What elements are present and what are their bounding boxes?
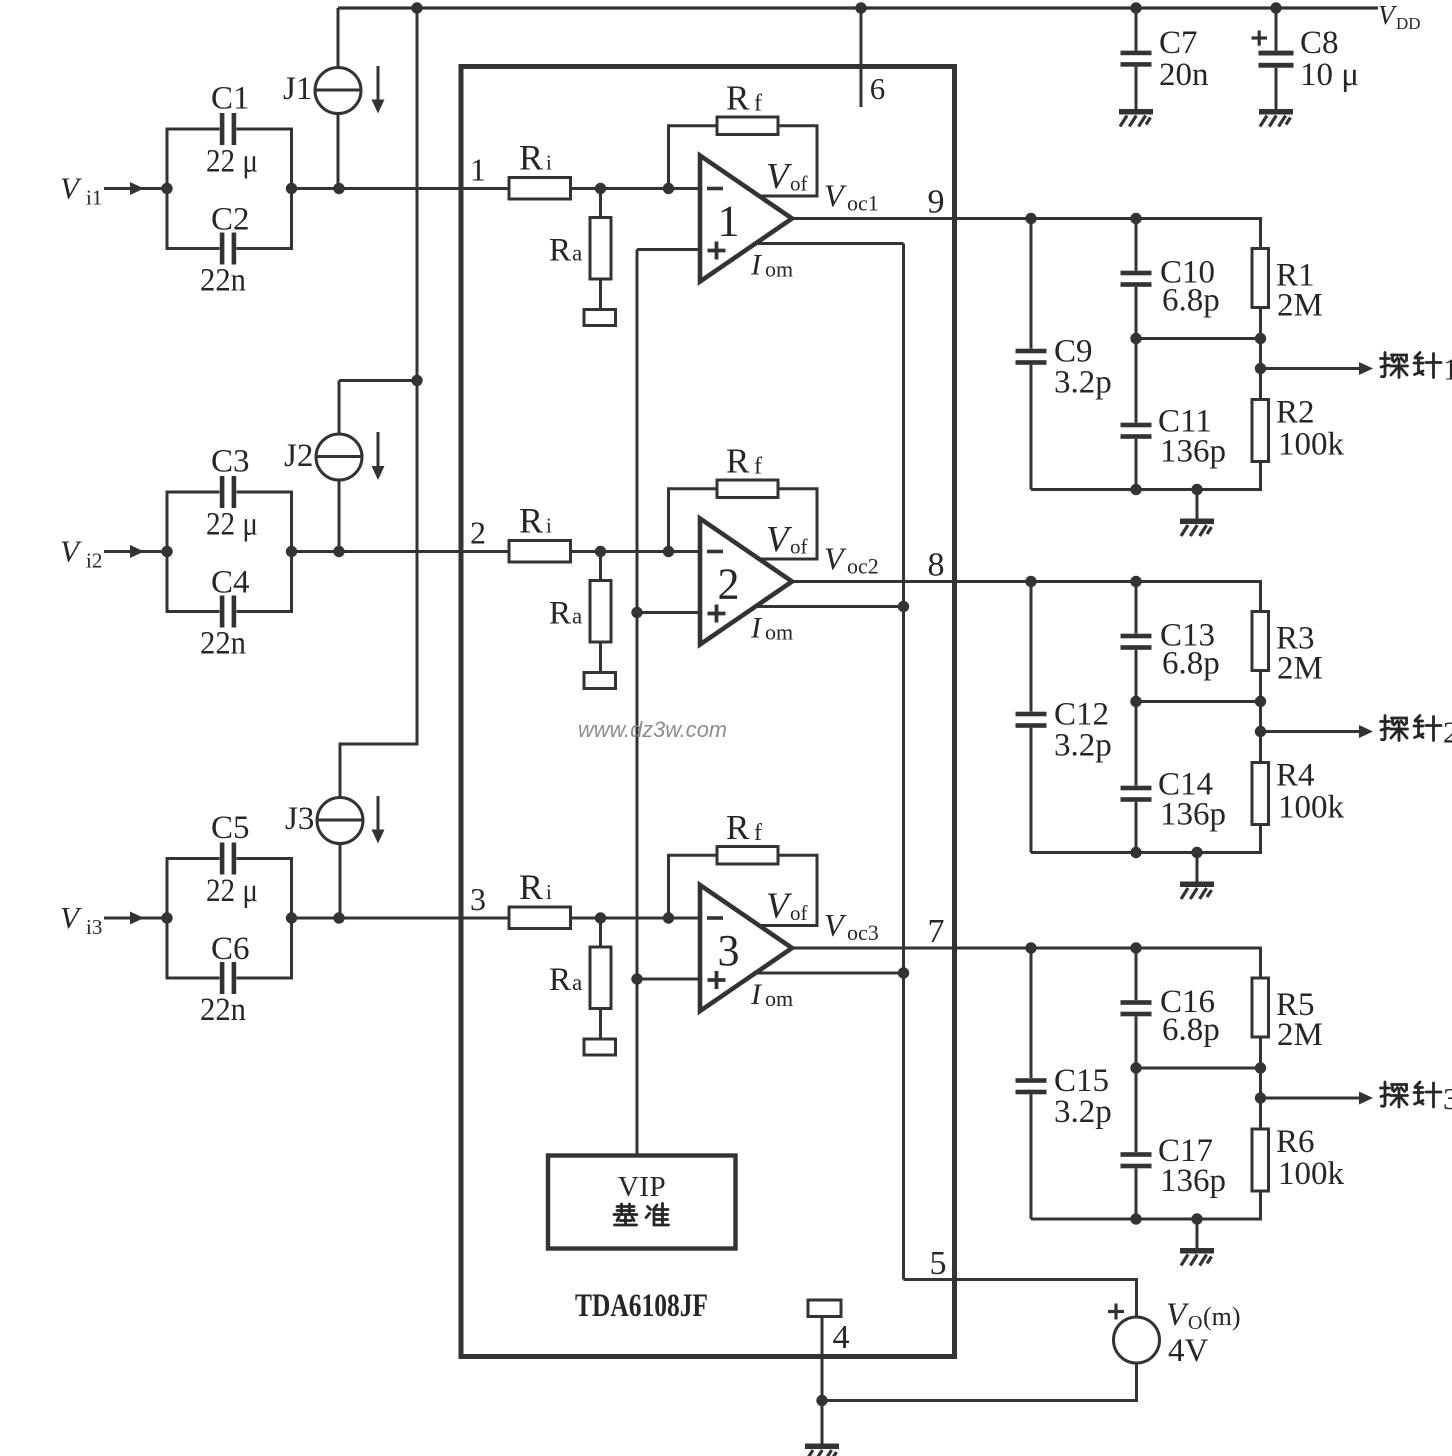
resistor R1 2M	[1252, 249, 1269, 308]
arrow beside J1	[372, 66, 385, 114]
svg-text:6: 6	[870, 71, 886, 106]
junction C-C12 top	[1025, 576, 1036, 587]
wire R3 bottom to R4 top	[1259, 671, 1262, 763]
junction ground rail tap 3	[1191, 1213, 1202, 1224]
junction ground rail tap 2	[1191, 847, 1202, 858]
svg-text:4: 4	[833, 1319, 850, 1356]
svg-text:f: f	[754, 820, 762, 846]
label Rf row3	[726, 808, 762, 847]
wire vertical from VDD rail x417 down	[340, 8, 417, 798]
junction probe tap 2	[1255, 726, 1266, 737]
label Voc1	[824, 178, 879, 216]
wire J2 branch down	[338, 381, 341, 435]
svg-text:C6: C6	[211, 931, 250, 967]
wire R1 bottom to R2 top	[1259, 308, 1262, 400]
resistor Rf row2	[717, 480, 778, 498]
capacitor C2 22n (bottom of input box)	[167, 189, 292, 265]
svg-text:i: i	[546, 880, 552, 904]
svg-text:22n: 22n	[200, 992, 246, 1028]
svg-text:3.2p: 3.2p	[1054, 1094, 1112, 1130]
junction ground rail C11	[1130, 484, 1141, 495]
junction C-C16 top	[1130, 942, 1141, 953]
op-amp 1 triangle	[700, 156, 792, 282]
wire Ri to minus node row3	[571, 917, 701, 920]
op-amp 3 plus sign	[708, 971, 726, 989]
net label probe2 (tanzhen2)	[1381, 715, 1452, 750]
wire Iom op2	[753, 605, 904, 608]
wire Vo source bottom to ground node	[822, 1363, 1137, 1401]
svg-text:2: 2	[718, 560, 740, 609]
junction input box left row1	[161, 183, 172, 194]
svg-text:R: R	[549, 962, 571, 998]
svg-text:C4: C4	[211, 565, 250, 601]
svg-text:R2: R2	[1276, 395, 1315, 431]
junction input box left row2	[161, 546, 172, 557]
junction mid left	[1130, 1062, 1141, 1073]
svg-text:1: 1	[1443, 352, 1452, 387]
wire R2 to ground rail	[1031, 462, 1261, 490]
plus sign of C8	[1252, 31, 1268, 46]
svg-text:i1: i1	[86, 186, 102, 210]
wire ground stub network 3	[1196, 1219, 1199, 1248]
svg-text:C1: C1	[211, 81, 250, 117]
svg-text:2M: 2M	[1277, 288, 1323, 324]
op-amp 2 minus sign	[707, 550, 723, 554]
svg-text:22 μ: 22 μ	[206, 873, 258, 909]
ground under C7	[1119, 109, 1153, 127]
svg-text:a: a	[572, 241, 582, 266]
junction ground rail tap 1	[1191, 484, 1202, 495]
svg-text:C5: C5	[211, 810, 250, 846]
wire J2 branch horizontal	[339, 379, 417, 382]
svg-text:3: 3	[1443, 1081, 1452, 1116]
svg-text:V: V	[60, 534, 82, 569]
wire R4 to ground rail	[1031, 825, 1261, 853]
svg-text:C8: C8	[1300, 25, 1339, 61]
svg-text:oc1: oc1	[847, 191, 879, 216]
wire op1 output to network	[792, 219, 1261, 249]
capacitor C15 3.2p	[1016, 948, 1047, 1219]
junction minus node row2	[663, 546, 674, 557]
label Ri row1	[519, 138, 552, 178]
arrowhead on Vi2 input	[130, 545, 144, 558]
capacitor C17 136p	[1121, 1068, 1152, 1219]
wire pin 6 stub	[860, 8, 863, 107]
label Iom op3	[750, 978, 793, 1011]
svg-text:a: a	[572, 604, 582, 629]
label Ra row3	[549, 962, 582, 998]
svg-text:R: R	[549, 233, 571, 269]
wire Ri to minus node row1	[571, 187, 701, 190]
wire pin 5 to Vo source	[904, 1280, 1137, 1318]
node VDD supply rail (top wire)	[338, 6, 1378, 9]
junction probe tap 3	[1255, 1092, 1266, 1103]
capacitor C12 3.2p	[1016, 582, 1047, 853]
junction Iom op2	[898, 601, 909, 612]
svg-text:136p: 136p	[1160, 434, 1226, 470]
svg-text:f: f	[754, 454, 762, 480]
svg-text:2: 2	[1443, 715, 1452, 750]
resistor R6 100k	[1252, 1129, 1269, 1191]
resistor R4 100k	[1252, 763, 1269, 825]
svg-text:3.2p: 3.2p	[1054, 365, 1112, 401]
svg-text:6.8p: 6.8p	[1162, 1012, 1220, 1048]
svg-text:3.2p: 3.2p	[1054, 728, 1112, 764]
label Voc2	[824, 541, 879, 579]
arrow beside J2	[372, 432, 385, 480]
capacitor C13 6.8p	[1121, 582, 1152, 702]
op-amp 2 plus sign	[708, 605, 726, 623]
label Vof row3	[766, 886, 808, 927]
svg-text:oc2: oc2	[847, 554, 879, 579]
wire probe 3	[1261, 1097, 1360, 1100]
wire plus input op1	[637, 248, 700, 251]
svg-text:f: f	[754, 91, 762, 117]
wire mid junction C16-R5	[1136, 1067, 1261, 1070]
label Vof row1	[766, 157, 808, 198]
svg-text:om: om	[765, 986, 793, 1011]
junction ground rail C17	[1130, 1213, 1141, 1224]
svg-text:C2: C2	[211, 202, 250, 238]
resistor Rf row3	[717, 847, 778, 865]
label Rf row1	[726, 79, 762, 118]
svg-text:100k: 100k	[1278, 427, 1345, 463]
junction plus input op2	[631, 607, 642, 618]
label Ra row1	[549, 233, 582, 269]
wire feedback loop row1	[669, 126, 818, 196]
junction input box right row2	[286, 546, 297, 557]
wire mid junction C10-R1	[1136, 337, 1261, 340]
wire Ri to minus node row2	[571, 550, 701, 553]
svg-text:R4: R4	[1276, 758, 1315, 794]
junction on VDD rail C7	[1130, 2, 1141, 13]
junction C-C10 top	[1130, 213, 1141, 224]
svg-text:6.8p: 6.8p	[1162, 283, 1220, 319]
svg-text:om: om	[765, 257, 793, 282]
label Ri row2	[519, 501, 552, 541]
wire row2 box to IC pin 2	[292, 550, 510, 553]
junction Ra top row2	[595, 546, 606, 557]
voltage source Vo(m) 4V	[1114, 1317, 1160, 1363]
wire Iom op1	[753, 242, 904, 245]
resistor Ra row2	[590, 581, 611, 643]
junction mid left	[1130, 333, 1141, 344]
junction mid right	[1255, 1062, 1266, 1073]
label Vof row2	[766, 520, 808, 561]
net label probe3 (tanzhen3)	[1381, 1081, 1452, 1116]
svg-text:V: V	[60, 171, 82, 206]
svg-text:i3: i3	[86, 915, 102, 939]
junction probe tap 1	[1255, 363, 1266, 374]
label Vo(m)	[1166, 1297, 1241, 1334]
svg-text:2M: 2M	[1277, 1017, 1323, 1053]
wire feedback loop row2	[669, 489, 818, 559]
svg-text:1: 1	[718, 197, 740, 246]
net label probe1 (tanzhen1)	[1381, 352, 1452, 387]
svg-text:a: a	[572, 970, 582, 995]
arrowhead on Vi1 input	[130, 182, 144, 195]
svg-text:VIP: VIP	[618, 1171, 666, 1203]
wire plus input op3	[637, 978, 700, 981]
svg-text:3: 3	[470, 881, 486, 917]
resistor Ri row3	[509, 907, 571, 929]
arrowhead probe 3	[1359, 1092, 1373, 1105]
net label VDD	[1378, 0, 1421, 33]
wire Vi2 input lead	[104, 550, 167, 553]
svg-text:DD: DD	[1396, 14, 1421, 33]
internal pad below Ra row2	[584, 673, 616, 689]
capacitor C8 10u electrolytic	[1259, 8, 1294, 109]
junction Iom op3	[898, 967, 909, 978]
capacitor C14 136p	[1121, 702, 1152, 853]
resistor R2 100k	[1252, 400, 1269, 462]
svg-text:8: 8	[928, 547, 945, 584]
junction Ra top row3	[595, 912, 606, 923]
ground network 1	[1180, 519, 1214, 537]
svg-text:22n: 22n	[200, 263, 246, 299]
wire plus input op2	[637, 611, 700, 614]
net label Vi1	[60, 171, 102, 210]
current source J3	[317, 798, 363, 844]
svg-text:i: i	[546, 514, 552, 538]
svg-text:22 μ: 22 μ	[206, 144, 258, 180]
capacitor C7 20n	[1121, 8, 1152, 109]
internal pad below Ra row1	[584, 310, 616, 326]
svg-text:2: 2	[470, 515, 486, 551]
capacitor C9 3.2p	[1016, 219, 1047, 490]
svg-text:R6: R6	[1276, 1124, 1315, 1160]
label jizhun (VIP reference) chinese	[614, 1204, 669, 1226]
wire Ra stub row2	[599, 552, 602, 581]
arrowhead probe 1	[1359, 362, 1373, 375]
resistor Ri row1	[509, 178, 571, 200]
svg-text:of: of	[790, 172, 808, 196]
resistor R5 2M	[1252, 978, 1269, 1037]
junction pin4 ground node	[816, 1395, 827, 1406]
ground network 2	[1180, 882, 1214, 900]
svg-text:2M: 2M	[1277, 651, 1323, 687]
svg-text:R: R	[726, 79, 750, 118]
svg-text:TDA6108JF: TDA6108JF	[575, 1288, 708, 1324]
wire Vi3 input lead	[104, 917, 167, 920]
wire Ra stub row1	[599, 189, 602, 218]
svg-text:136p: 136p	[1160, 797, 1226, 833]
capacitor C3 22μ (top of input box)	[167, 476, 292, 552]
svg-text:J2: J2	[284, 438, 313, 474]
wire probe 2	[1261, 730, 1360, 733]
capacitor C6 22n (bottom of input box)	[167, 918, 292, 994]
svg-text:1: 1	[470, 152, 486, 188]
svg-text:136p: 136p	[1160, 1163, 1226, 1199]
svg-text:3: 3	[718, 926, 740, 975]
capacitor C16 6.8p	[1121, 948, 1152, 1068]
arrowhead probe 2	[1359, 725, 1373, 738]
wire VIP reference vertical	[636, 250, 639, 1157]
wire row1 box to IC pin 1	[292, 187, 510, 190]
wire Ra to pad row3	[599, 1009, 602, 1040]
svg-text:J1: J1	[283, 71, 312, 107]
wire probe 1	[1261, 367, 1360, 370]
svg-text:4V: 4V	[1168, 1333, 1209, 1369]
svg-text:(m): (m)	[1203, 1302, 1241, 1331]
svg-text:5: 5	[930, 1245, 947, 1282]
op-amp 3 minus sign	[707, 916, 723, 920]
resistor Ra row1	[590, 218, 611, 280]
svg-text:R: R	[726, 808, 750, 847]
junction input box right row3	[286, 912, 297, 923]
svg-text:100k: 100k	[1278, 1156, 1345, 1192]
label Iom op1	[750, 249, 793, 282]
svg-text:C7: C7	[1159, 25, 1198, 61]
label Iom op2	[750, 612, 793, 645]
junction J3 bottom on row3	[333, 912, 344, 923]
ground under pin 4	[805, 1444, 839, 1456]
svg-text:22n: 22n	[200, 626, 246, 662]
svg-text:6.8p: 6.8p	[1162, 646, 1220, 682]
junction J2 bottom on row2	[333, 546, 344, 557]
svg-text:of: of	[790, 535, 808, 559]
svg-text:R: R	[519, 867, 543, 907]
wire Iom bus vertical	[902, 244, 905, 1280]
label Rf row2	[726, 442, 762, 481]
junction mid right	[1255, 696, 1266, 707]
wire VDD rail down to J1	[337, 8, 340, 68]
wire op3 output to network	[792, 948, 1261, 978]
svg-text:www.dz3w.com: www.dz3w.com	[578, 717, 727, 742]
resistor Ra row3	[590, 947, 611, 1009]
svg-text:i2: i2	[86, 549, 102, 573]
junction mid left	[1130, 696, 1141, 707]
junction input box right row1	[286, 183, 297, 194]
svg-text:R: R	[519, 501, 543, 541]
wire Iom op3	[753, 972, 904, 975]
capacitor C4 22n (bottom of input box)	[167, 552, 292, 628]
op-amp 3 triangle	[700, 885, 792, 1011]
wire J3 to row3 input node	[339, 843, 342, 918]
wire R6 to ground rail	[1031, 1191, 1261, 1219]
arrow beside J3	[372, 796, 385, 844]
junction J1 bottom on row1	[333, 183, 344, 194]
junction x417 J2 branch	[411, 375, 422, 386]
svg-text:22 μ: 22 μ	[206, 507, 258, 543]
junction minus node row1	[663, 183, 674, 194]
capacitor C5 22μ (top of input box)	[167, 843, 292, 919]
resistor Ri row2	[509, 541, 571, 563]
svg-text:oc3: oc3	[847, 920, 879, 945]
svg-text:20n: 20n	[1159, 57, 1209, 93]
ground under C8	[1259, 109, 1293, 127]
wire op2 output to network	[792, 582, 1261, 612]
label Voc3	[824, 907, 879, 945]
op-amp 2 triangle	[700, 519, 792, 645]
junction on VDD rail pin6	[855, 2, 866, 13]
plus sign of Vo(m)	[1108, 1304, 1124, 1320]
svg-text:R: R	[549, 596, 571, 632]
junction minus node row3	[663, 912, 674, 923]
svg-text:R: R	[519, 138, 543, 178]
junction C-C13 top	[1130, 576, 1141, 587]
wire row3 box to IC pin 3	[292, 917, 510, 920]
junction on VDD rail C8	[1270, 2, 1281, 13]
label Ra row2	[549, 596, 582, 632]
resistor Rf row1	[717, 117, 778, 135]
label Ri row3	[519, 867, 552, 907]
arrowhead on Vi3 input	[130, 912, 144, 925]
svg-text:100k: 100k	[1278, 790, 1345, 826]
wire ground stub network 1	[1196, 490, 1199, 519]
net label Vi3	[60, 900, 102, 939]
wire Vi1 input lead	[104, 187, 167, 190]
svg-text:7: 7	[928, 913, 945, 950]
current source J2	[316, 434, 362, 480]
svg-text:10 μ: 10 μ	[1300, 57, 1359, 93]
ground network 3	[1180, 1248, 1214, 1266]
internal pad pin 4	[808, 1300, 841, 1317]
wire mid junction C13-R3	[1136, 700, 1261, 703]
capacitor C1 22μ (top of input box)	[167, 113, 292, 189]
junction C-C15 top	[1025, 942, 1036, 953]
svg-text:of: of	[790, 901, 808, 925]
wire J2 to row2 input node	[338, 480, 341, 552]
internal pad below Ra row3	[584, 1039, 616, 1055]
junction plus input op3	[631, 973, 642, 984]
net label Vi2	[60, 534, 102, 573]
wire pin 4 down	[821, 1317, 824, 1444]
block VIP reference	[548, 1156, 736, 1249]
junction mid right	[1255, 333, 1266, 344]
svg-text:om: om	[765, 620, 793, 645]
wire J1 to row1 input node	[337, 114, 340, 189]
junction Ra top row1	[595, 183, 606, 194]
junction input box left row3	[161, 912, 172, 923]
op-amp 1 plus sign	[708, 242, 726, 260]
wire Ra to pad row2	[599, 642, 602, 673]
svg-text:O: O	[1188, 1312, 1202, 1334]
wire R5 bottom to R6 top	[1259, 1037, 1262, 1129]
svg-text:9: 9	[928, 184, 945, 221]
capacitor C11 136p	[1121, 339, 1152, 490]
resistor R3 2M	[1252, 612, 1269, 671]
capacitor C10 6.8p	[1121, 219, 1152, 339]
junction on VDD rail at x417	[411, 2, 422, 13]
wire ground stub network 2	[1196, 853, 1199, 882]
IC TDA6108JF outline box	[461, 67, 955, 1357]
wire feedback loop row3	[669, 855, 818, 925]
svg-text:C3: C3	[211, 444, 250, 480]
wire Ra to pad row1	[599, 279, 602, 310]
current source J1	[315, 68, 361, 114]
svg-text:i: i	[546, 151, 552, 175]
op-amp 1 minus sign	[707, 187, 723, 191]
svg-text:J3: J3	[285, 801, 314, 837]
wire Ra stub row3	[599, 918, 602, 947]
svg-text:R: R	[726, 442, 750, 481]
junction C-C9 top	[1025, 213, 1036, 224]
svg-text:V: V	[60, 900, 82, 935]
junction ground rail C14	[1130, 847, 1141, 858]
